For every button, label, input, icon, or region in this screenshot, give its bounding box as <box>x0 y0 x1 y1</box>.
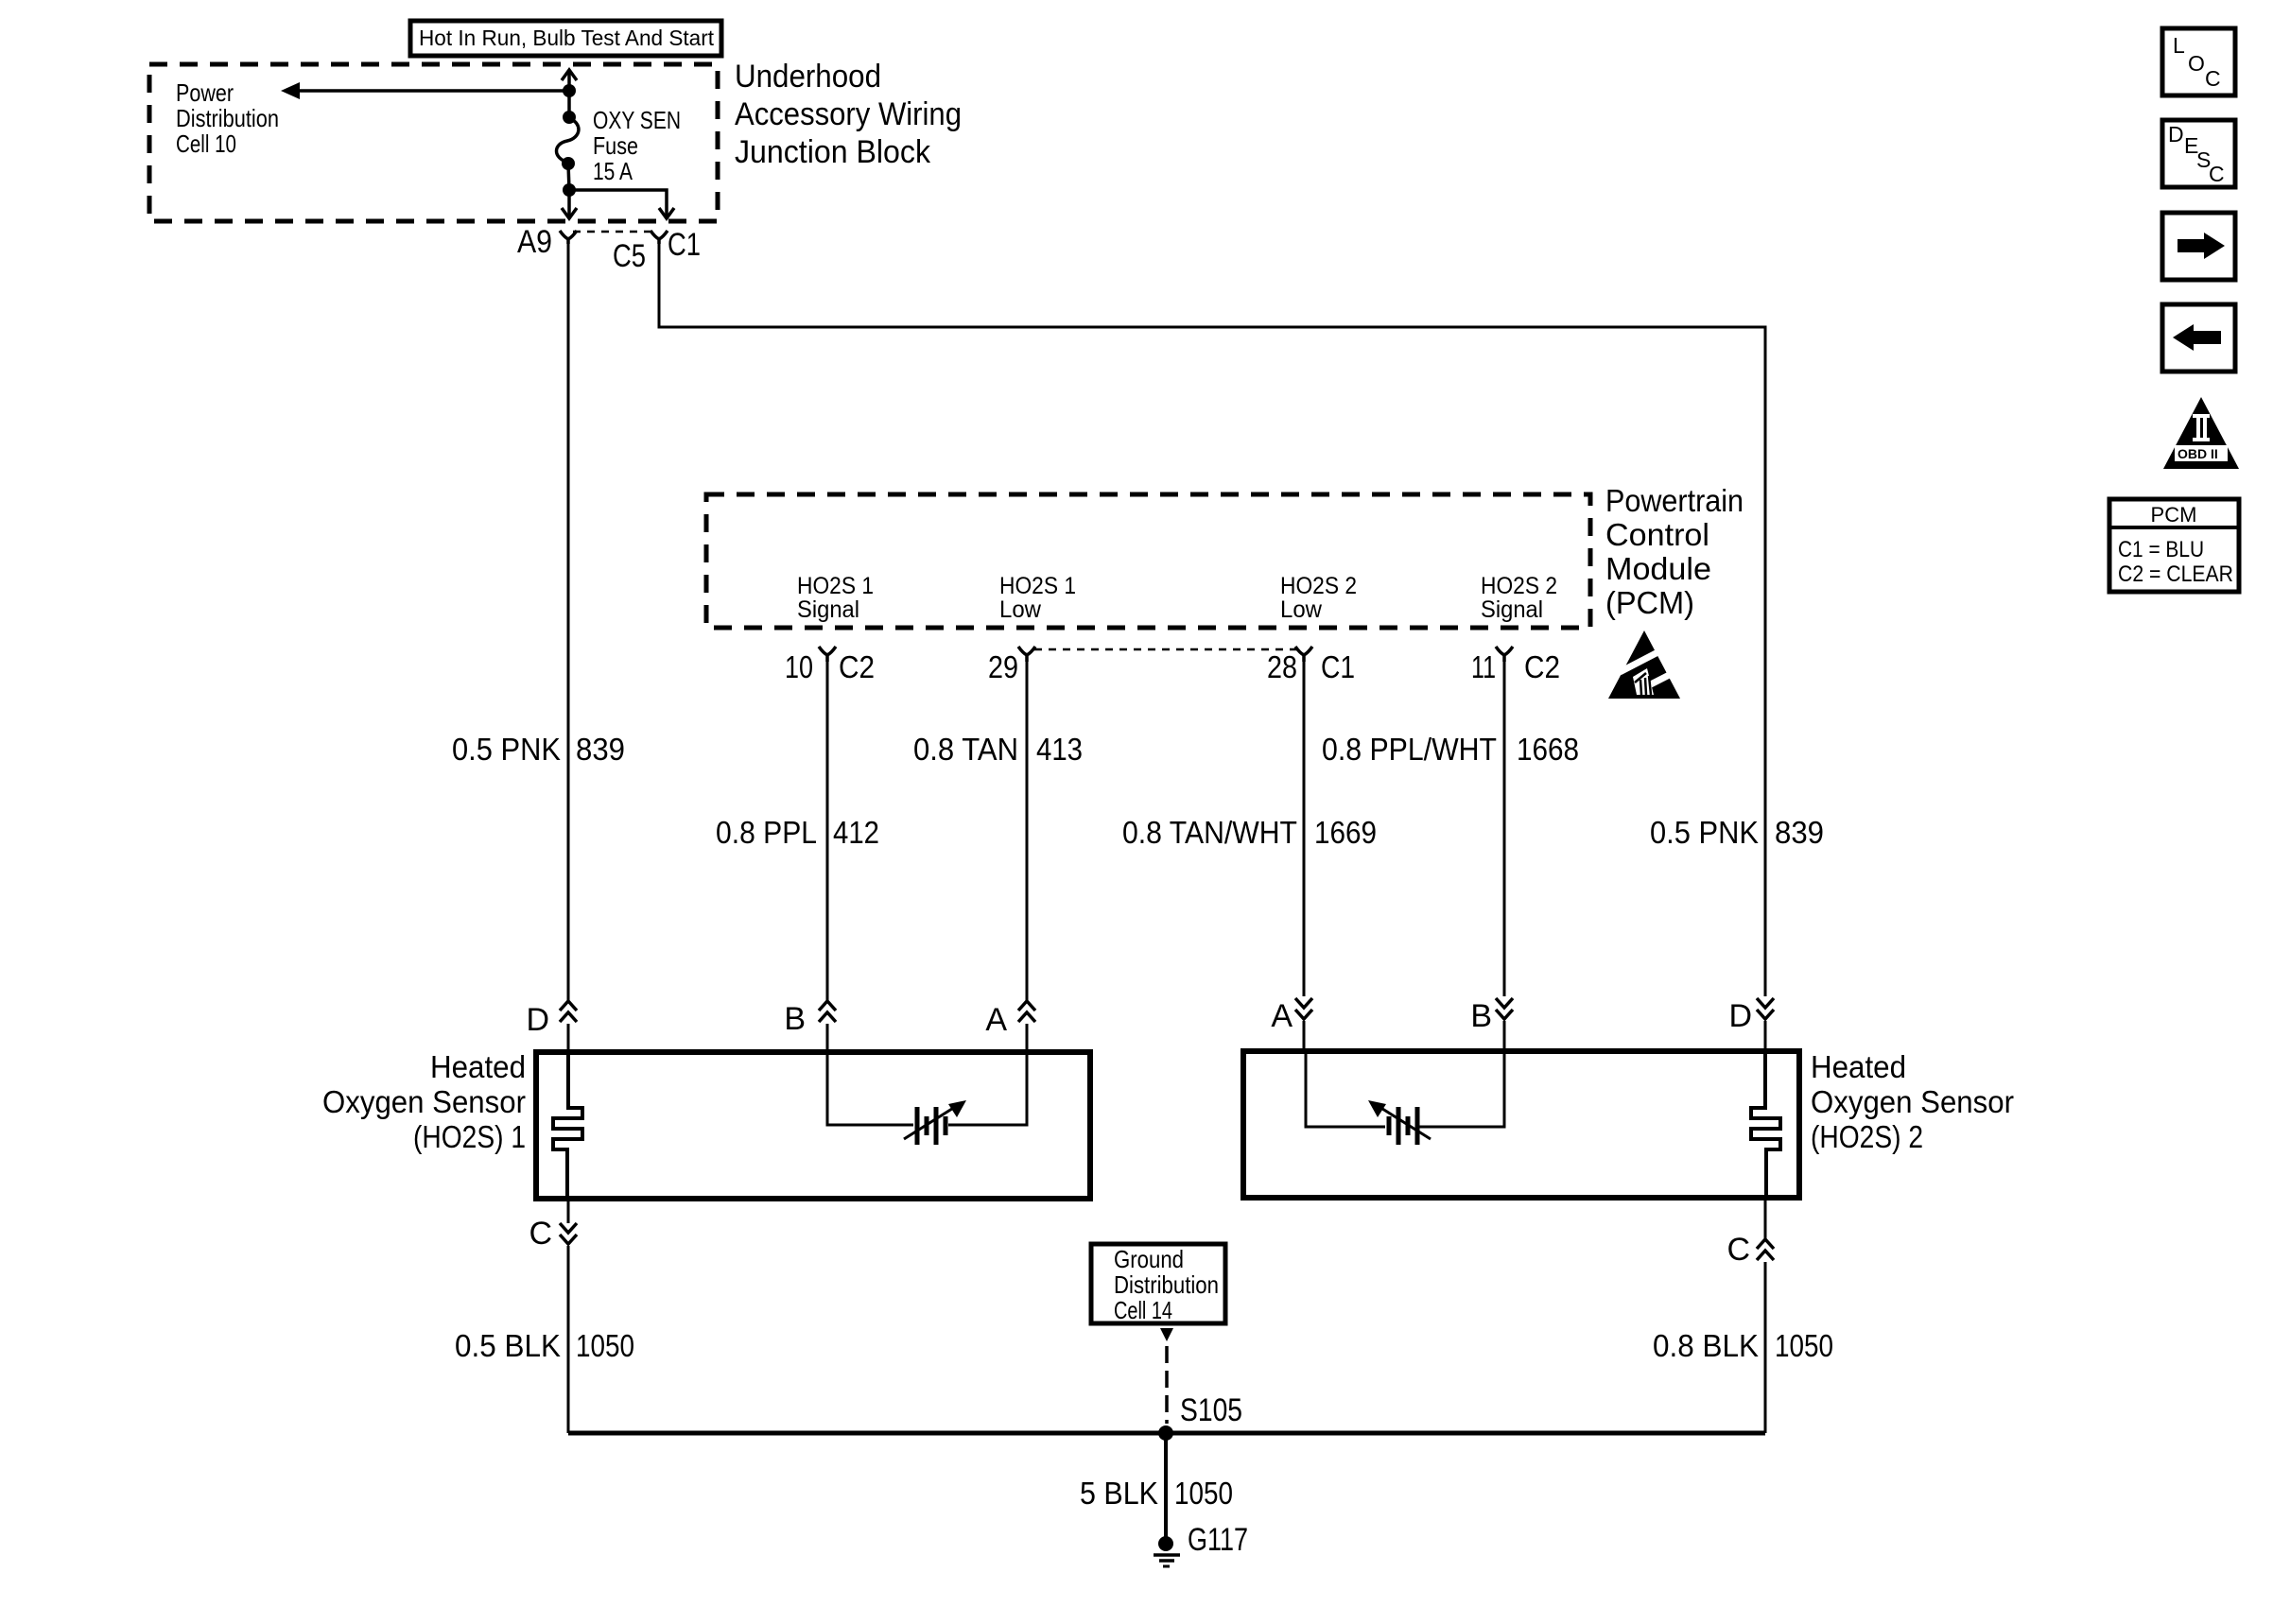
value label 0.8 TAN/WHT 1669 <box>1122 815 1377 850</box>
svg-text:5 BLK: 5 BLK <box>1080 1476 1158 1511</box>
svg-text:Accessory Wiring: Accessory Wiring <box>735 96 962 132</box>
svg-text:(PCM): (PCM) <box>1605 585 1694 620</box>
sensor element (variable cell) HO2S1 <box>904 1100 966 1145</box>
svg-text:15 A: 15 A <box>593 157 633 185</box>
svg-text:Oxygen Sensor: Oxygen Sensor <box>1811 1084 2014 1119</box>
connector pin 11 C2 (PCM) <box>1471 647 1560 684</box>
svg-text:B: B <box>784 1001 806 1037</box>
svg-text:G117: G117 <box>1188 1522 1248 1558</box>
svg-text:Signal: Signal <box>797 596 859 623</box>
label: Underhood Accessory Wiring Junction Block <box>735 59 962 170</box>
svg-text:29: 29 <box>988 649 1018 684</box>
svg-text:Signal: Signal <box>1481 596 1543 623</box>
svg-text:C1: C1 <box>668 227 701 263</box>
svg-text:C1: C1 <box>1321 649 1355 684</box>
wire below HO2S1 to C chevron <box>567 1199 570 1223</box>
svg-text:1668: 1668 <box>1517 732 1579 767</box>
svg-text:Low: Low <box>1280 596 1323 623</box>
PCM module dashed box <box>706 494 1590 628</box>
svg-text:839: 839 <box>576 732 625 767</box>
svg-text:C: C <box>2209 162 2225 186</box>
svg-text:Hot In Run, Bulb Test And Star: Hot In Run, Bulb Test And Start <box>419 26 715 50</box>
ESD sensitivity symbol <box>1608 631 1684 699</box>
svg-text:Powertrain: Powertrain <box>1605 483 1744 518</box>
svg-text:HO2S 2: HO2S 2 <box>1280 573 1357 599</box>
value label 0.8 BLK 1050 <box>1653 1328 1833 1363</box>
svg-text:0.8 TAN: 0.8 TAN <box>913 732 1018 767</box>
splice S105 <box>1158 1425 1173 1441</box>
connector pin 28 C1 (PCM) <box>1267 647 1355 684</box>
svg-text:Cell 14: Cell 14 <box>1114 1296 1172 1324</box>
sensor element (variable cell) HO2S2 <box>1368 1100 1431 1145</box>
svg-text:OXY SEN: OXY SEN <box>593 106 681 134</box>
value label 0.5 PNK 839 <box>452 732 625 767</box>
svg-text:C2 = CLEAR: C2 = CLEAR <box>2118 561 2233 587</box>
svg-text:0.8 BLK: 0.8 BLK <box>1653 1328 1759 1363</box>
svg-text:1050: 1050 <box>1775 1328 1833 1363</box>
label: Heated Oxygen Sensor (HO2S) 1 <box>322 1049 526 1154</box>
svg-text:0.5 PNK: 0.5 PNK <box>1650 815 1759 850</box>
svg-text:HO2S 1: HO2S 1 <box>999 573 1076 599</box>
wire: 0.8 TAN/WHT 1669 (pin 28 to HO2S2 A) <box>1303 662 1306 996</box>
component box: Heated Oxygen Sensor (HO2S) 1 <box>536 1052 1090 1199</box>
svg-text:0.5 PNK: 0.5 PNK <box>452 732 561 767</box>
svg-text:Control: Control <box>1605 517 1709 552</box>
wire: branch to C1 <box>569 190 674 218</box>
svg-text:1050: 1050 <box>576 1328 634 1363</box>
label box: Hot In Run, Bulb Test And Start <box>410 21 721 56</box>
wire: 0.8 BLK 1050 down to ground bus <box>1764 1262 1767 1433</box>
svg-text:C: C <box>529 1216 552 1252</box>
icon: DESC box <box>2162 120 2235 187</box>
sensor cell wires inside HO2S2 <box>1306 1051 1504 1127</box>
in-line connector chevrons at wire 1086 (A), up <box>1018 1001 1035 1022</box>
wire: ground bus (bottom horizontal) <box>568 1431 1765 1436</box>
svg-text:Heated: Heated <box>1811 1049 1906 1084</box>
svg-text:O: O <box>2188 51 2205 76</box>
junction dot at Hot feed <box>563 84 576 97</box>
svg-text:Distribution: Distribution <box>176 104 279 132</box>
svg-text:Heated: Heated <box>430 1049 526 1084</box>
svg-text:1050: 1050 <box>1174 1476 1233 1511</box>
svg-text:839: 839 <box>1775 815 1824 850</box>
icon: left arrow box <box>2162 304 2235 371</box>
svg-text:1669: 1669 <box>1314 815 1377 850</box>
svg-text:Low: Low <box>999 596 1042 623</box>
svg-text:Cell 10: Cell 10 <box>176 130 236 158</box>
svg-text:C5: C5 <box>613 238 646 274</box>
connector A9 (in-line connector half) <box>560 231 577 244</box>
svg-text:HO2S 1: HO2S 1 <box>797 573 874 599</box>
svg-text:D: D <box>2168 122 2184 147</box>
svg-text:412: 412 <box>833 815 879 850</box>
icon: right arrow box <box>2162 213 2235 280</box>
wire: 5 BLK 1050 to G117 <box>1164 1433 1168 1544</box>
wire: fuse output <box>568 164 569 190</box>
connector pin 29 (PCM) <box>988 647 1035 684</box>
svg-text:Fuse: Fuse <box>593 131 638 160</box>
wires continuing below chevrons into HO2S1 <box>568 1024 1027 1055</box>
svg-text:A: A <box>985 1002 1007 1038</box>
svg-text:D: D <box>526 1002 549 1038</box>
svg-text:0.8 PPL/WHT: 0.8 PPL/WHT <box>1322 732 1497 767</box>
svg-text:B: B <box>1470 998 1492 1034</box>
pin label HO2S 1 Low <box>999 573 1076 623</box>
icon: LOC box <box>2162 28 2235 95</box>
svg-text:Distribution: Distribution <box>1114 1270 1219 1299</box>
value label 0.5 BLK 1050 <box>455 1328 634 1363</box>
wire: feed from Hot In Run bus <box>562 70 577 117</box>
wire: from C1 across top to HO2S2 pin D <box>659 244 1765 996</box>
connector C1 (in-line connector half) <box>651 231 668 244</box>
pin label HO2S 2 Low <box>1280 573 1357 623</box>
svg-text:HO2S 2: HO2S 2 <box>1481 573 1557 599</box>
svg-text:413: 413 <box>1036 732 1083 767</box>
svg-text:Module: Module <box>1605 551 1711 586</box>
value label 5 BLK 1050 <box>1080 1476 1233 1511</box>
wires continuing below chevrons into HO2S2 <box>1304 1021 1765 1051</box>
icon: OBD II triangle <box>2163 397 2239 469</box>
svg-text:S105: S105 <box>1180 1392 1242 1428</box>
wire: branch to A9 <box>562 190 577 218</box>
fuse: OXY SEN Fuse 15 A <box>557 111 579 170</box>
value label 0.8 PPL 412 <box>716 815 879 850</box>
dashed wire to S105 <box>1165 1346 1169 1424</box>
svg-text:0.5 BLK: 0.5 BLK <box>455 1328 561 1363</box>
wire: 0.8 TAN 413 (pin 29 to HO2S1 A) <box>1026 662 1029 1000</box>
svg-text:L: L <box>2173 33 2185 58</box>
svg-text:C1 = BLU: C1 = BLU <box>2118 537 2204 562</box>
heater element HO2S1 <box>553 1055 582 1199</box>
component box: Heated Oxygen Sensor (HO2S) 2 <box>1243 1051 1799 1198</box>
arrow to ground distribution <box>1160 1328 1173 1341</box>
connector pin 10 C2 (PCM) <box>785 647 875 684</box>
wire: 0.8 PPL/WHT 1668 (pin 11 to HO2S2 B) <box>1503 662 1506 996</box>
in-line connector chevrons at wire 1867 (D right), down <box>1757 998 1774 1019</box>
connector dashed line C5 <box>573 231 654 233</box>
svg-text:D: D <box>1728 998 1752 1034</box>
ground G117 <box>1154 1536 1180 1566</box>
svg-text:Underhood: Underhood <box>735 59 881 95</box>
label: Power Distribution Cell 10 <box>176 78 279 158</box>
svg-text:Power: Power <box>176 78 234 107</box>
svg-text:C2: C2 <box>1524 649 1560 684</box>
svg-text:A: A <box>1271 998 1293 1034</box>
svg-text:C: C <box>1726 1232 1750 1268</box>
svg-text:OBD II: OBD II <box>2178 446 2218 461</box>
label: Powertrain Control Module (PCM) <box>1605 483 1744 620</box>
connector dashed line pins 29-28 <box>1034 648 1296 651</box>
svg-text:(HO2S) 1: (HO2S) 1 <box>413 1119 526 1154</box>
label: Heated Oxygen Sensor (HO2S) 2 <box>1811 1049 2014 1154</box>
in-line connector chevrons pin D (HO2S1), up <box>819 1001 836 1022</box>
in-line connector chevrons at wire 1379 (A right), down <box>1295 998 1312 1019</box>
wire: 0.8 PPL 412 (pin 10 to HO2S1 B) <box>826 662 829 1000</box>
in-line connector chevrons at wire 1591 (B right), down <box>1496 998 1513 1019</box>
svg-text:0.8 PPL: 0.8 PPL <box>716 815 817 850</box>
junction dot below fuse <box>563 183 576 197</box>
svg-text:11: 11 <box>1471 649 1496 684</box>
in-line connector chevrons at wire 1867 (C right), up <box>1757 1239 1774 1260</box>
in-line connector chevrons at wire 601 (D), up <box>560 1001 577 1022</box>
heater element HO2S2 <box>1751 1051 1780 1198</box>
wire: arrow to Power Distribution <box>281 82 569 99</box>
svg-text:(HO2S) 2: (HO2S) 2 <box>1811 1119 1923 1154</box>
in-line connector chevrons at wire 601 (C left), down <box>560 1223 577 1244</box>
svg-text:28: 28 <box>1267 649 1297 684</box>
svg-text:PCM: PCM <box>2151 503 2197 527</box>
svg-text:10: 10 <box>785 649 813 684</box>
svg-text:Oxygen Sensor: Oxygen Sensor <box>322 1084 526 1119</box>
pin label HO2S 1 Signal <box>797 573 874 623</box>
wire below HO2S2 to C chevron <box>1764 1198 1767 1238</box>
pin label HO2S 2 Signal <box>1481 573 1557 623</box>
wire: 0.5 BLK 1050 down to ground bus <box>567 1246 570 1433</box>
wire: 0.5 PNK 839 from A9 down to HO2S1 pin D <box>567 244 570 1000</box>
svg-text:Junction Block: Junction Block <box>735 134 931 170</box>
ground distribution label box: Ground Distribution Cell 14 <box>1091 1244 1225 1324</box>
legend box: PCM connectors <box>2109 499 2239 592</box>
value label 0.5 PNK 839 (right) <box>1650 815 1824 850</box>
svg-text:A9: A9 <box>517 224 552 260</box>
svg-text:C2: C2 <box>839 649 875 684</box>
value label 0.8 TAN 413 <box>913 732 1083 767</box>
svg-text:0.8 TAN/WHT: 0.8 TAN/WHT <box>1122 815 1297 850</box>
svg-text:Ground: Ground <box>1114 1245 1184 1273</box>
svg-text:C: C <box>2205 66 2221 91</box>
value label 0.8 PPL/WHT 1668 <box>1322 732 1579 767</box>
sensor cell wires inside HO2S1 <box>827 1055 1027 1125</box>
label: OXY SEN Fuse 15 A <box>593 106 681 185</box>
junction block: Underhood Accessory Wiring Junction Block (dashed box) <box>149 64 718 221</box>
